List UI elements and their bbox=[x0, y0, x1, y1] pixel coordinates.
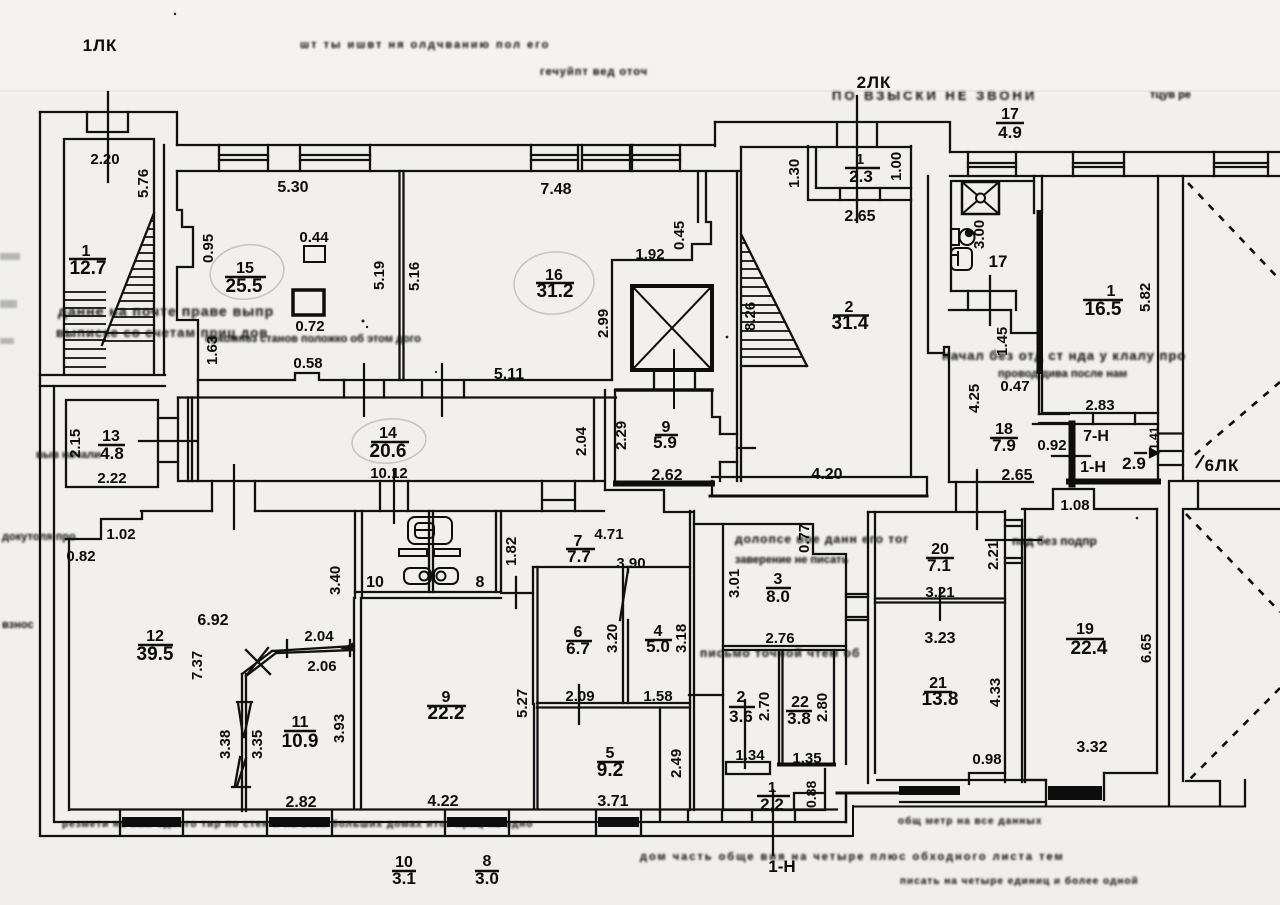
svg-text:2.22: 2.22 bbox=[97, 470, 126, 487]
svg-text:3.40: 3.40 bbox=[327, 566, 344, 595]
svg-text:2ЛК: 2ЛК bbox=[857, 73, 892, 92]
svg-text:общ метр на все данных: общ метр на все данных bbox=[898, 815, 1042, 827]
svg-text:3.93: 3.93 bbox=[331, 714, 348, 743]
svg-text:3.90: 3.90 bbox=[616, 555, 645, 572]
svg-text:6.92: 6.92 bbox=[197, 612, 228, 629]
svg-text:0.72: 0.72 bbox=[295, 318, 324, 335]
svg-text:2.09: 2.09 bbox=[565, 688, 594, 705]
svg-text:2.83: 2.83 bbox=[1085, 397, 1114, 414]
svg-text:3.18: 3.18 bbox=[673, 624, 690, 653]
svg-text:5.76: 5.76 bbox=[135, 169, 152, 198]
svg-text:3.01: 3.01 bbox=[726, 569, 743, 598]
svg-text:2.04: 2.04 bbox=[304, 628, 334, 645]
svg-text:2.99: 2.99 bbox=[595, 309, 612, 338]
svg-text:2.65: 2.65 bbox=[1001, 467, 1032, 484]
svg-text:3.6: 3.6 bbox=[729, 707, 753, 726]
svg-text:3.38: 3.38 bbox=[217, 730, 234, 759]
svg-text:2: 2 bbox=[737, 689, 746, 706]
svg-text:12: 12 bbox=[146, 628, 164, 645]
svg-text:начал без отд ст нда у клалу п: начал без отд ст нда у клалу про bbox=[942, 348, 1186, 363]
svg-text:заверение не писать: заверение не писать bbox=[735, 554, 849, 566]
svg-text:7.48: 7.48 bbox=[540, 181, 571, 198]
svg-text:гечуйпт вед оточ: гечуйпт вед оточ bbox=[540, 66, 648, 78]
svg-text:6.65: 6.65 bbox=[1138, 634, 1155, 663]
svg-text:10: 10 bbox=[366, 574, 384, 591]
svg-text:0.98: 0.98 bbox=[972, 751, 1001, 768]
svg-text:5.27: 5.27 bbox=[514, 689, 531, 718]
svg-text:14: 14 bbox=[379, 425, 397, 442]
svg-text:2.49: 2.49 bbox=[668, 749, 685, 778]
svg-text:1.00: 1.00 bbox=[888, 152, 905, 181]
svg-text:8.26: 8.26 bbox=[742, 302, 759, 331]
svg-text:2.04: 2.04 bbox=[573, 426, 590, 456]
svg-text:19: 19 bbox=[1076, 621, 1094, 638]
svg-text:3: 3 bbox=[774, 571, 783, 588]
svg-text:10.12: 10.12 bbox=[370, 465, 408, 482]
svg-text:1.82: 1.82 bbox=[503, 537, 520, 566]
svg-text:взнос: взнос bbox=[2, 619, 34, 631]
svg-text:1.58: 1.58 bbox=[643, 688, 672, 705]
svg-text:25.5: 25.5 bbox=[226, 276, 263, 297]
svg-text:17: 17 bbox=[989, 252, 1008, 271]
svg-text:20.6: 20.6 bbox=[370, 441, 407, 462]
svg-text:2.20: 2.20 bbox=[90, 151, 119, 168]
svg-text:4.8: 4.8 bbox=[100, 444, 124, 463]
svg-text:6ЛК: 6ЛК bbox=[1205, 456, 1240, 475]
svg-text:2.21: 2.21 bbox=[985, 541, 1002, 570]
svg-text:1.08: 1.08 bbox=[1060, 497, 1089, 514]
svg-text:1: 1 bbox=[1107, 283, 1116, 300]
svg-text:8: 8 bbox=[483, 853, 492, 870]
svg-text:4.71: 4.71 bbox=[594, 526, 623, 543]
svg-text:0.92: 0.92 bbox=[1037, 437, 1066, 454]
svg-text:13: 13 bbox=[102, 428, 120, 445]
svg-text:15: 15 bbox=[236, 260, 254, 277]
svg-text:4.22: 4.22 bbox=[427, 793, 458, 810]
svg-text:5.16: 5.16 bbox=[406, 262, 423, 291]
svg-text:0.88: 0.88 bbox=[803, 781, 819, 808]
svg-text:3.71: 3.71 bbox=[597, 793, 628, 810]
svg-text:12.7: 12.7 bbox=[70, 258, 107, 279]
svg-text:шт ты ишвт ня олдчванию пол ег: шт ты ишвт ня олдчванию пол его bbox=[300, 39, 550, 51]
svg-text:0.82: 0.82 bbox=[66, 548, 95, 565]
svg-text:долопсе вое данн его тог: долопсе вое данн его тог bbox=[735, 532, 909, 546]
svg-text:4.20: 4.20 bbox=[811, 466, 842, 483]
svg-text:3.20: 3.20 bbox=[604, 624, 621, 653]
svg-text:1: 1 bbox=[856, 151, 864, 168]
svg-text:2.76: 2.76 bbox=[765, 630, 794, 647]
svg-text:1.63: 1.63 bbox=[204, 336, 221, 365]
svg-text:2.29: 2.29 bbox=[613, 421, 630, 450]
svg-text:8.0: 8.0 bbox=[766, 587, 790, 606]
svg-text:17: 17 bbox=[1001, 106, 1019, 123]
svg-text:0.44: 0.44 bbox=[299, 229, 329, 246]
svg-text:3.23: 3.23 bbox=[924, 630, 955, 647]
svg-text:2.65: 2.65 bbox=[844, 208, 875, 225]
svg-text:2.62: 2.62 bbox=[651, 467, 682, 484]
svg-text:4.25: 4.25 bbox=[966, 384, 983, 413]
svg-text:1.34: 1.34 bbox=[735, 747, 765, 764]
svg-text:8: 8 bbox=[476, 574, 485, 591]
svg-text:2.80: 2.80 bbox=[814, 693, 831, 722]
svg-text:10.9: 10.9 bbox=[282, 731, 319, 752]
svg-text:2.9: 2.9 bbox=[1122, 454, 1146, 473]
svg-text:0.58: 0.58 bbox=[293, 355, 322, 372]
svg-text:16.5: 16.5 bbox=[1085, 299, 1122, 320]
svg-text:7.37: 7.37 bbox=[189, 651, 206, 680]
svg-text:5.11: 5.11 bbox=[494, 366, 524, 383]
svg-text:3.32: 3.32 bbox=[1076, 739, 1107, 756]
svg-text:1.45: 1.45 bbox=[994, 327, 1011, 356]
svg-text:1.41: 1.41 bbox=[1147, 426, 1161, 450]
svg-text:5.30: 5.30 bbox=[277, 179, 308, 196]
svg-text:0.77: 0.77 bbox=[796, 524, 813, 553]
svg-text:2,2: 2,2 bbox=[760, 795, 784, 814]
svg-text:39.5: 39.5 bbox=[137, 644, 174, 665]
svg-text:3.35: 3.35 bbox=[249, 730, 266, 759]
svg-text:1.92: 1.92 bbox=[635, 246, 664, 263]
svg-text:2.70: 2.70 bbox=[756, 692, 773, 721]
svg-text:писать на четыре единиц и боле: писать на четыре единиц и более одной bbox=[900, 875, 1139, 887]
svg-text:2.3: 2.3 bbox=[849, 167, 873, 186]
svg-text:5.82: 5.82 bbox=[1137, 283, 1154, 312]
svg-text:3.21: 3.21 bbox=[925, 584, 954, 601]
svg-text:2.15: 2.15 bbox=[67, 429, 84, 458]
svg-text:11: 11 bbox=[292, 714, 309, 731]
svg-text:0.47: 0.47 bbox=[1000, 378, 1029, 395]
svg-text:5.19: 5.19 bbox=[371, 261, 388, 290]
svg-text:4.33: 4.33 bbox=[987, 678, 1004, 707]
svg-text:1.02: 1.02 bbox=[106, 526, 135, 543]
svg-text:1: 1 bbox=[768, 779, 776, 796]
svg-text:0.45: 0.45 bbox=[671, 221, 688, 250]
svg-text:1-Н: 1-Н bbox=[768, 857, 795, 876]
svg-text:0.95: 0.95 bbox=[200, 234, 217, 263]
svg-text:22.4: 22.4 bbox=[1071, 638, 1108, 659]
svg-text:дом часть обще вия на четыре п: дом часть обще вия на четыре плюс обходн… bbox=[640, 851, 1065, 863]
svg-text:1ЛК: 1ЛК bbox=[83, 36, 118, 55]
svg-text:3.00: 3.00 bbox=[971, 220, 988, 249]
svg-text:2.06: 2.06 bbox=[307, 658, 336, 675]
svg-text:1.35: 1.35 bbox=[792, 750, 821, 767]
svg-text:1.30: 1.30 bbox=[786, 159, 803, 188]
svg-text:2.82: 2.82 bbox=[285, 794, 316, 811]
svg-text:7-Н: 7-Н bbox=[1083, 428, 1109, 445]
svg-text:4.9: 4.9 bbox=[998, 123, 1022, 142]
svg-text:1-Н: 1-Н bbox=[1080, 459, 1106, 476]
